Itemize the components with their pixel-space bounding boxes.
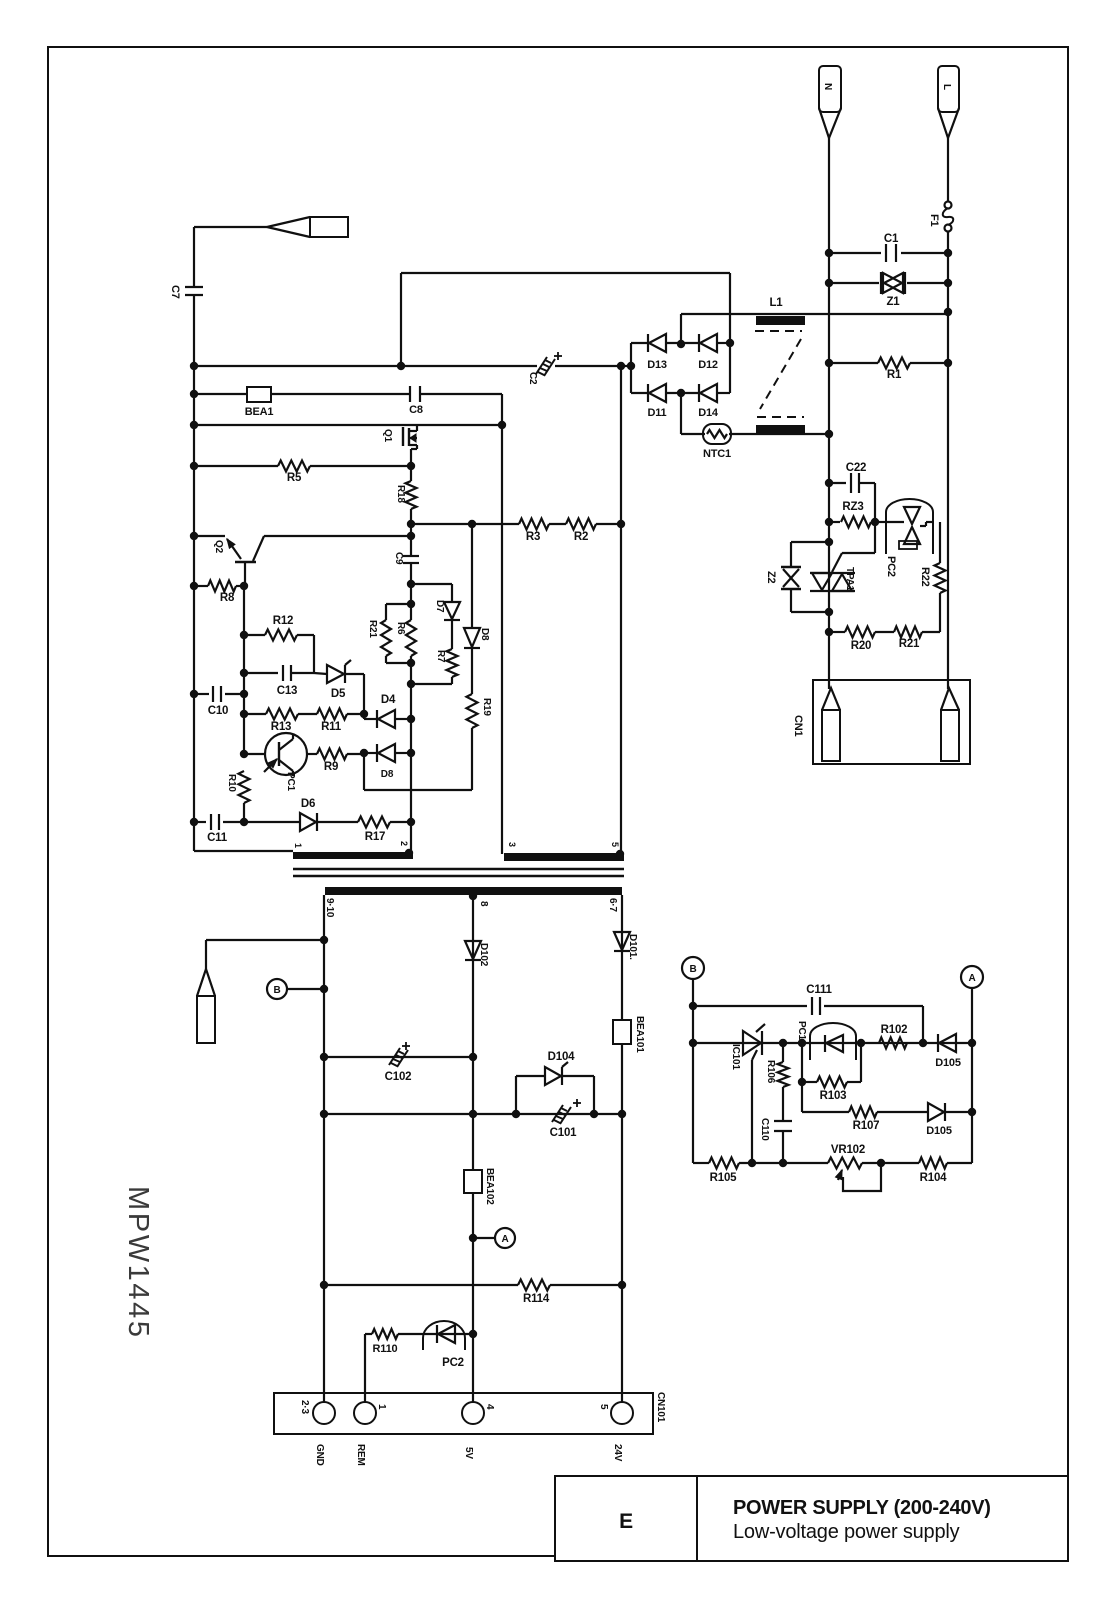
svg-text:R3: R3 — [526, 531, 540, 543]
svg-text:MPW1445: MPW1445 — [122, 1186, 154, 1340]
svg-text:Low-voltage power supply: Low-voltage power supply — [733, 1521, 960, 1543]
svg-text:C111: C111 — [806, 984, 832, 996]
svg-text:D5: D5 — [331, 688, 346, 700]
svg-text:C7: C7 — [169, 285, 181, 299]
svg-text:R5: R5 — [287, 472, 302, 484]
svg-text:R7: R7 — [435, 650, 446, 663]
svg-text:C1: C1 — [884, 233, 899, 245]
svg-text:D104: D104 — [548, 1051, 575, 1063]
svg-text:D8: D8 — [479, 628, 490, 641]
svg-text:R6: R6 — [395, 622, 406, 635]
svg-text:A: A — [501, 1234, 508, 1245]
svg-text:D4: D4 — [381, 694, 396, 706]
svg-text:D8: D8 — [381, 769, 394, 780]
svg-text:F1: F1 — [928, 214, 940, 227]
svg-text:NTC1: NTC1 — [703, 448, 731, 460]
svg-text:RZ3: RZ3 — [842, 501, 863, 513]
svg-text:R114: R114 — [523, 1293, 550, 1305]
svg-text:1: 1 — [376, 1404, 387, 1410]
svg-text:A: A — [968, 973, 975, 984]
svg-text:GND: GND — [314, 1444, 325, 1466]
svg-text:PC2: PC2 — [442, 1357, 464, 1369]
svg-text:R110: R110 — [373, 1343, 398, 1355]
svg-text:R2: R2 — [574, 531, 588, 543]
svg-text:D6: D6 — [301, 798, 315, 810]
svg-text:VR102: VR102 — [831, 1144, 865, 1156]
svg-text:R21: R21 — [367, 620, 378, 638]
svg-text:D105: D105 — [935, 1057, 961, 1069]
svg-text:R11: R11 — [321, 721, 342, 733]
svg-text:POWER SUPPLY (200-240V): POWER SUPPLY (200-240V) — [733, 1497, 991, 1519]
svg-text:E: E — [619, 1510, 633, 1533]
svg-text:Z2: Z2 — [765, 571, 777, 584]
svg-text:Z1: Z1 — [886, 296, 900, 308]
svg-text:D12: D12 — [698, 359, 718, 371]
svg-text:C13: C13 — [277, 685, 298, 697]
svg-text:L1: L1 — [769, 297, 783, 309]
svg-text:D7: D7 — [434, 600, 445, 613]
svg-text:9·10: 9·10 — [324, 898, 335, 918]
svg-text:D11: D11 — [648, 407, 667, 419]
svg-text:3: 3 — [507, 842, 517, 847]
svg-text:R19: R19 — [481, 698, 492, 716]
svg-text:R102: R102 — [881, 1024, 908, 1036]
svg-text:R18: R18 — [395, 485, 406, 503]
svg-text:R106: R106 — [765, 1060, 776, 1084]
svg-text:4: 4 — [484, 1404, 495, 1410]
svg-text:L: L — [941, 84, 952, 90]
svg-text:R104: R104 — [920, 1172, 947, 1184]
svg-text:PC2: PC2 — [885, 556, 897, 577]
svg-text:PC1: PC1 — [796, 1021, 807, 1040]
svg-text:2·3: 2·3 — [299, 1400, 310, 1414]
svg-text:C22: C22 — [846, 462, 867, 474]
svg-text:B: B — [689, 964, 696, 975]
svg-text:R9: R9 — [324, 761, 338, 773]
svg-text:R12: R12 — [273, 615, 294, 627]
svg-text:R21: R21 — [899, 638, 920, 650]
svg-text:5V: 5V — [463, 1447, 474, 1459]
svg-text:D102: D102 — [478, 943, 489, 967]
svg-text:TPA1: TPA1 — [844, 567, 855, 592]
svg-text:C9: C9 — [393, 552, 404, 565]
svg-text:Q1: Q1 — [382, 429, 393, 443]
svg-text:C110: C110 — [759, 1118, 770, 1141]
svg-text:R105: R105 — [710, 1172, 737, 1184]
svg-text:IC101: IC101 — [730, 1044, 741, 1070]
svg-text:REM: REM — [355, 1444, 366, 1466]
svg-text:R13: R13 — [271, 721, 292, 733]
svg-text:BEA101: BEA101 — [634, 1016, 645, 1053]
svg-text:8: 8 — [478, 901, 489, 907]
svg-text:N: N — [822, 83, 833, 90]
svg-text:R20: R20 — [851, 640, 872, 652]
svg-text:B: B — [273, 985, 280, 996]
svg-text:D14: D14 — [698, 407, 719, 419]
svg-text:C11: C11 — [207, 832, 228, 844]
svg-text:R10: R10 — [226, 774, 237, 792]
svg-text:24V: 24V — [612, 1444, 623, 1462]
svg-text:C10: C10 — [208, 705, 229, 717]
svg-text:2: 2 — [399, 841, 409, 846]
svg-text:1: 1 — [293, 843, 303, 848]
svg-text:D101.: D101. — [627, 934, 638, 960]
svg-text:BEA102: BEA102 — [484, 1168, 495, 1205]
svg-text:CN101: CN101 — [655, 1392, 666, 1423]
svg-text:R22: R22 — [919, 567, 931, 587]
svg-text:R8: R8 — [220, 592, 235, 604]
svg-text:R103: R103 — [820, 1090, 847, 1102]
svg-text:R107: R107 — [853, 1120, 880, 1132]
svg-text:C2: C2 — [527, 372, 538, 385]
svg-text:C102: C102 — [385, 1071, 412, 1083]
svg-text:R17: R17 — [365, 831, 386, 843]
svg-text:6·7: 6·7 — [607, 898, 618, 912]
svg-text:PC1: PC1 — [285, 772, 296, 791]
svg-text:D105: D105 — [926, 1125, 952, 1137]
svg-text:BEA1: BEA1 — [245, 406, 274, 418]
svg-text:D13: D13 — [647, 359, 667, 371]
svg-text:C8: C8 — [409, 404, 423, 416]
svg-text:CN1: CN1 — [792, 715, 804, 736]
svg-text:5: 5 — [610, 842, 620, 847]
svg-text:5: 5 — [598, 1404, 609, 1410]
svg-text:C101: C101 — [550, 1127, 577, 1139]
svg-text:R1: R1 — [887, 369, 902, 381]
svg-text:Q2: Q2 — [213, 540, 224, 554]
